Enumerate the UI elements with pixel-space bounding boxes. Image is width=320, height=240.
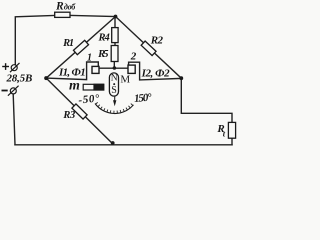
svg-text:28,5В: 28,5В	[6, 72, 33, 84]
svg-text:доб: доб	[64, 3, 76, 12]
svg-text:-50°: -50°	[78, 92, 101, 106]
svg-text:R4: R4	[98, 32, 110, 43]
svg-text:1: 1	[87, 52, 92, 63]
svg-text:m: m	[69, 79, 80, 94]
svg-text:M: M	[120, 73, 130, 85]
svg-text:S: S	[111, 85, 117, 96]
svg-text:R2: R2	[150, 34, 164, 46]
svg-text:I1, Ф1: I1, Ф1	[58, 66, 86, 78]
svg-text:R5: R5	[97, 49, 108, 60]
svg-text:2: 2	[130, 50, 137, 62]
svg-text:R3: R3	[62, 110, 75, 121]
svg-text:150°: 150°	[134, 91, 153, 105]
svg-text:R1: R1	[62, 38, 74, 49]
svg-text:N: N	[111, 74, 118, 84]
svg-text:R: R	[55, 0, 64, 12]
svg-text:I2, Ф2: I2, Ф2	[141, 68, 171, 80]
